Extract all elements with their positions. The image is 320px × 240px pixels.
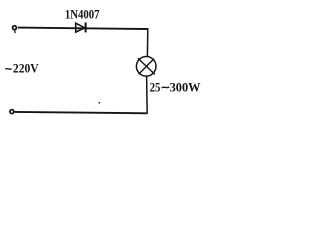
wire (right vertical, top corner to lamp) [146,28,148,57]
lamp EL (circle) [136,57,156,77]
label ~220V (tilde) [5,68,12,71]
lamp EL (X diagonal 2) [139,59,155,75]
svg-text:220V: 220V [13,62,39,76]
svg-text:1N4007: 1N4007 [65,7,100,21]
svg-text:300W: 300W [170,80,201,95]
wire (lamp bottom to bottom corner) [146,76,149,113]
diode D1 cathode bar [85,22,87,32]
terminal (bottom-left input) [10,110,14,114]
diode D1 1N4007 (triangle) [76,23,85,32]
terminal (top-left input) [13,26,17,30]
label 25~300W (tilde) [162,86,170,89]
wire (terminal tail mark) [14,30,16,33]
speck (scan noise) [98,102,100,104]
wire (top horizontal) [18,28,148,29]
lamp EL (X diagonal 1) [138,58,155,74]
svg-text:25: 25 [150,80,161,95]
wire (bottom horizontal) [15,112,148,113]
